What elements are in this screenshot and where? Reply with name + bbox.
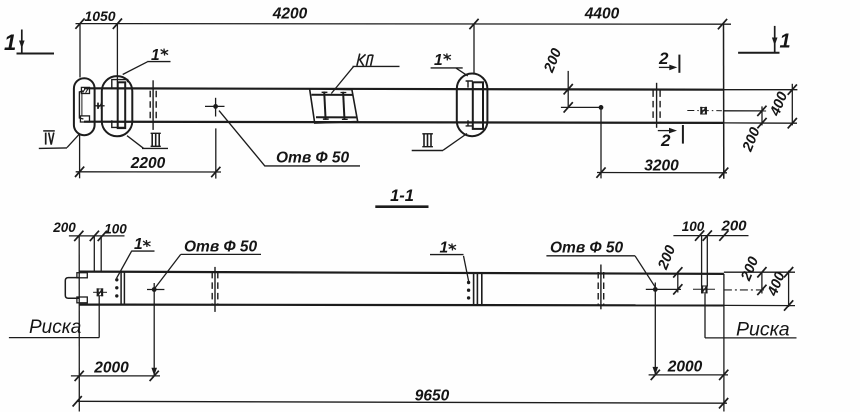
bolt (plan, right): shank bars: [700, 107, 702, 115]
tick at x=117.4: [113, 19, 122, 29]
extension line x=474: [473, 24, 475, 74]
label IV: overline: [43, 130, 55, 132]
bolt (section, left): shank bars: [97, 288, 99, 296]
svg-text:Отв Ф 50: Отв Ф 50: [276, 150, 350, 167]
svg-text:Риска: Риска: [29, 317, 81, 338]
tick at x=722.5: [718, 19, 727, 29]
svg-text:1050: 1050: [84, 8, 115, 24]
extension lines to bolt (left): [93, 236, 95, 272]
svg-text:3200: 3200: [644, 158, 679, 175]
label III (left): bars and strokes: [151, 133, 161, 146]
left end bracket: bottom tab: [77, 297, 87, 303]
section marker 1 (top-right): stem: [774, 26, 776, 53]
beam right end line + extension (full height): [723, 274, 725, 412]
label III (left): leader to clamp B: [127, 136, 144, 149]
label 1* (middle): leader: [456, 68, 468, 76]
capsule A top tab hatch: [83, 88, 89, 93]
dim 400 (section right edge): line: [788, 271, 790, 308]
hole symbol (plan, right): dot: [599, 105, 604, 110]
svg-text:4400: 4400: [584, 6, 620, 23]
right end: hole axis extension: [724, 110, 766, 112]
label IV: glyph I: [45, 133, 47, 145]
label 1* (section left): asterisk: [143, 240, 151, 247]
label Отв Ф50 (section left): leader: [155, 254, 181, 288]
riska (right): leader vertical: [704, 293, 706, 338]
dim 200 line vertical: [567, 71, 569, 108]
hole extension down to 2000 dim: [153, 298, 155, 376]
beam bottom edge (section): [79, 304, 724, 307]
dim 200 (section, at hole): line: [677, 272, 679, 293]
capsule B top angle: [112, 80, 128, 89]
beam top edge (section): [79, 272, 724, 274]
bolt (plan, right): centre line: [687, 110, 722, 112]
capsule A strap inner line: [81, 94, 83, 117]
beam left end line + extension (full height): [78, 236, 80, 412]
svg-text:200: 200: [739, 125, 763, 154]
label III (right): bars and strokes: [422, 134, 433, 147]
hole symbol (section right): dot: [653, 287, 658, 292]
capsule C bottom angle: [466, 120, 473, 126]
bolt (section, left): centre line: [93, 291, 107, 293]
label IV: glyph V: [49, 133, 54, 145]
label 1* (section left): underline: [131, 250, 154, 252]
dim 200 (right edge, plan): line: [761, 106, 763, 125]
label 1* leader to clamp B top: [123, 62, 148, 75]
right end: hole axis extension (section): [724, 289, 766, 291]
capsule A bottom tab: [80, 116, 89, 122]
splice joint (section left): dashed: [211, 272, 213, 305]
dim 2200: ticks: [75, 167, 84, 177]
right end: beam top edge extension (section): [724, 271, 795, 273]
plate edge double line (section left): [120, 272, 122, 305]
svg-text:400: 400: [764, 270, 788, 299]
dim 3200: line: [597, 172, 727, 174]
right end: beam top edge extension: [724, 89, 798, 91]
extension line x=80 down to clamp: [79, 24, 81, 78]
riska (right): underline: [705, 337, 797, 339]
extension line x=117.4: [116, 24, 118, 82]
capsule B bottom angle: [112, 120, 125, 127]
label III (left): underline: [142, 147, 168, 149]
extension lines to bolt (section right): [701, 236, 703, 287]
label 1* asterisk: [161, 49, 169, 56]
dim 2200: line: [76, 171, 221, 173]
label 1* (section left): leader: [117, 251, 132, 278]
section marker 1 (top-left): base line: [17, 53, 55, 55]
clamp capsule C (middle): [457, 74, 488, 137]
label III (right): leader: [443, 134, 467, 151]
capsule A top tab: [81, 87, 89, 93]
clamp capsule B: [102, 76, 133, 136]
svg-text:200: 200: [720, 218, 747, 235]
hole symbol: horizontal axis: [205, 105, 225, 107]
beam bottom edge (plan): [84, 122, 724, 123]
kn lacing bar 1: [324, 92, 325, 120]
splice joint (left): dashed line: [149, 91, 151, 120]
svg-text:2200: 2200: [130, 155, 166, 172]
dim 100/200 (section right): line: [673, 235, 748, 237]
section marker 2 (upper): arrow line: [659, 66, 671, 68]
label IV: underline: [39, 147, 67, 150]
capsule C gusset plate: [473, 82, 483, 129]
svg-text:Риска: Риска: [736, 319, 790, 341]
section marker 1 (top-left): view-direction arrowhead: [19, 41, 25, 49]
label 1* (middle): underline: [431, 67, 463, 69]
dim 2000 (right): line: [649, 374, 728, 376]
weld dots (section left): [115, 278, 118, 281]
svg-text:1: 1: [4, 30, 16, 55]
hole symbol (section left): dot: [152, 287, 157, 292]
capsule A strap: [79, 91, 83, 119]
label кп: underline: [353, 65, 400, 67]
dim 2200: extension from clamp A: [79, 134, 81, 179]
splice joint (right): dashed: [652, 90, 654, 122]
label кп: leader: [331, 67, 353, 94]
svg-text:4200: 4200: [272, 6, 308, 23]
hole extension down to 2000 dim: [654, 298, 656, 375]
section marker 1 (top-right): arrowhead: [772, 38, 778, 46]
beam top edge (plan): [84, 88, 724, 89]
clamp capsule A (far left): [74, 78, 95, 135]
top dimension chain line: [76, 23, 732, 26]
kn lacing bar 2: [343, 92, 344, 120]
dim 200/100 (left): line: [69, 235, 125, 237]
plate edge triple line (section mid): [473, 273, 475, 306]
svg-text:2000: 2000: [93, 360, 129, 377]
leader line Отв Ф50 (plan left): [219, 111, 360, 166]
splice joint (section right): dashed 2: [603, 272, 605, 305]
svg-text:200: 200: [52, 220, 76, 235]
dim 9650: line: [77, 401, 728, 403]
svg-text:9650: 9650: [415, 388, 450, 405]
batten plate kn: parallelogram: [310, 89, 358, 123]
label 1* (middle): asterisk: [443, 53, 451, 60]
svg-text:Отв Ф 50: Отв Ф 50: [184, 239, 258, 256]
title underline: [375, 205, 428, 208]
bolt between clamps: [95, 103, 105, 109]
tick at x=474: [469, 19, 478, 29]
hole extension line down to 2200 dim: [215, 128, 217, 178]
splice joint (section left): dashed 2: [217, 272, 219, 305]
dim 2000 (left): line: [71, 375, 160, 377]
splice joint (right): dashed 2: [659, 90, 661, 122]
label 1* underline: [147, 61, 170, 63]
riska (left): leader vertical: [98, 296, 100, 338]
hole symbol: vertical axis: [215, 98, 217, 117]
svg-text:1: 1: [780, 31, 791, 53]
splice joint (section left): solid: [214, 267, 216, 312]
svg-text:200: 200: [738, 255, 762, 284]
kn inner bottom chord: [316, 116, 356, 118]
hole symbol axes: [147, 289, 164, 291]
svg-text:1: 1: [434, 52, 443, 69]
section marker 2 (lower): bar: [682, 125, 684, 144]
label Отв Ф50 (section right): underline: [546, 255, 635, 257]
capsule B gusset plate: [118, 82, 126, 128]
kn bar end marks: [322, 92, 348, 119]
hole extension down to 3200 dim: [600, 107, 602, 178]
left end bracket: strap: [65, 278, 79, 299]
label IV: leader to clamp A: [67, 134, 80, 148]
capsule C top angle: [466, 81, 473, 88]
left end bracket: top tab: [77, 273, 87, 278]
section marker 2 (upper): bar: [678, 55, 680, 73]
hole symbol axes: [646, 288, 681, 290]
svg-text:100: 100: [104, 222, 127, 237]
splice joint (section right): solid: [600, 265, 602, 310]
weld dots (section mid): [467, 281, 470, 284]
right end: beam bottom edge extension (section): [724, 304, 795, 306]
splice joint (left): solid line: [152, 80, 154, 130]
section marker 2 (lower): arrow line: [658, 130, 670, 132]
svg-text:2000: 2000: [667, 359, 703, 376]
kn inner top chord: [312, 94, 353, 96]
splice joint (right): solid: [656, 83, 658, 128]
section marker 1 (top-right): base line: [738, 52, 779, 54]
tick at x=80: [75, 18, 84, 28]
svg-text:Отв Ф 50: Отв Ф 50: [550, 240, 624, 257]
label кп: text: [357, 54, 366, 66]
dim 200 (section right edge): line: [761, 272, 763, 293]
right end: beam bottom edge extension: [724, 122, 797, 124]
svg-text:1-1: 1-1: [390, 187, 414, 205]
bolt (section right): shank bars: [701, 285, 703, 293]
label 1* (section mid): underline: [430, 254, 464, 256]
riska (left): underline: [9, 337, 99, 339]
label 1* (section mid): leader: [464, 256, 469, 281]
bolt (section right): centre line: [693, 288, 715, 290]
dim 200 horizontal to hole: [561, 106, 601, 108]
svg-text:100: 100: [682, 219, 705, 234]
beam right end vertical (ext up + end + ext down to 3200 dim): [723, 24, 725, 179]
label III (right): underline: [412, 150, 443, 152]
label 1* (section mid): asterisk: [449, 243, 457, 250]
splice joint (left): dashed line 2: [155, 91, 157, 120]
svg-text:2: 2: [658, 49, 669, 68]
dim 400 (right edge, plan): line: [791, 84, 793, 126]
splice joint (section right): dashed: [597, 272, 599, 305]
label Отв Ф50 (section left): underline: [181, 253, 261, 255]
svg-text:200: 200: [541, 46, 565, 75]
svg-text:2: 2: [660, 131, 671, 150]
hole symbol (plan, left): dot: [213, 104, 218, 109]
section marker 1 (top-left): stem: [21, 30, 23, 53]
label Отв Ф50 (section right): leader: [635, 256, 656, 288]
svg-text:200: 200: [655, 243, 679, 272]
